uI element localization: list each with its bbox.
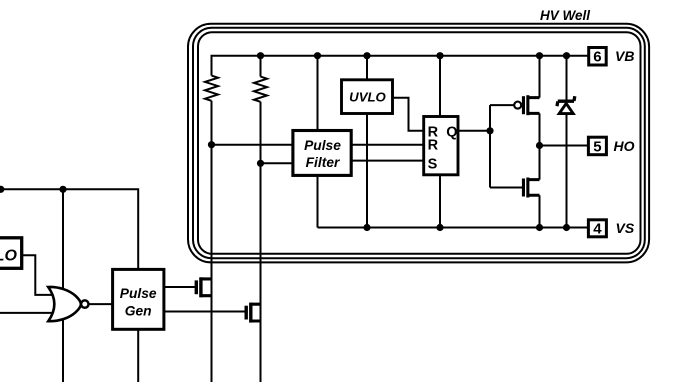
transistor M2 (level shift right) bbox=[245, 303, 261, 323]
wire pulse filter input rail 2 bbox=[261, 161, 424, 164]
wire HO tap bbox=[540, 145, 589, 147]
block Pulse Gen bbox=[113, 269, 164, 329]
zener diode D1 bbox=[557, 96, 575, 113]
svg-text:HO: HO bbox=[614, 138, 635, 154]
resistor R1 bbox=[205, 76, 218, 101]
wire UVLO to latch R bbox=[393, 98, 424, 131]
wire pulse gen bottom vertical bbox=[137, 329, 139, 382]
wire gate line vertical bbox=[489, 105, 491, 187]
HV Well boundary middle ring bbox=[193, 28, 645, 258]
wire VB top bus bbox=[212, 56, 589, 76]
block UVLO (low side, clipped) bbox=[0, 238, 22, 268]
pin 4 box bbox=[588, 220, 606, 238]
svg-text:LO: LO bbox=[0, 247, 18, 264]
junction dots on VB bus bbox=[257, 52, 264, 59]
wire latch vertical bbox=[439, 56, 441, 228]
latch U1 RRS bbox=[424, 117, 458, 175]
gate NOR bbox=[48, 287, 88, 321]
transistor NMOS low-side (well) bbox=[522, 178, 540, 198]
wire left branch vertical bbox=[62, 189, 64, 382]
svg-text:Pulse: Pulse bbox=[304, 138, 341, 153]
svg-text:6: 6 bbox=[593, 49, 601, 66]
svg-text:UVLO: UVLO bbox=[349, 90, 386, 105]
svg-text:4: 4 bbox=[593, 221, 602, 238]
junction dot gate node bbox=[486, 127, 493, 134]
svg-text:Gen: Gen bbox=[125, 304, 152, 319]
junction dots on VS bus bbox=[363, 224, 370, 231]
svg-text:S: S bbox=[428, 157, 438, 173]
svg-text:5: 5 bbox=[593, 138, 601, 155]
wire PMOS gate stub bbox=[490, 104, 514, 106]
wire Q output bbox=[458, 130, 490, 132]
wire NOR lower input bbox=[0, 312, 53, 314]
wire pulse filter vertical bbox=[317, 56, 319, 228]
HV Well boundary inner ring bbox=[198, 32, 641, 254]
junction dot rail1 bbox=[208, 141, 215, 148]
resistor R2 bbox=[254, 77, 267, 102]
svg-text:VB: VB bbox=[615, 48, 634, 64]
HV Well boundary outer ring bbox=[188, 24, 649, 263]
transistor PMOS high-side bbox=[514, 95, 539, 115]
transistor M1 (level shift left) bbox=[195, 277, 212, 297]
svg-text:Filter: Filter bbox=[306, 155, 340, 170]
wire LIN input bus bbox=[0, 189, 138, 269]
svg-text:R: R bbox=[428, 138, 439, 154]
junction dot rail2 bbox=[257, 160, 264, 167]
wire VS bottom bus bbox=[318, 227, 589, 229]
junction dot left edge bbox=[0, 186, 4, 193]
pin 6 box bbox=[589, 48, 607, 66]
pin 5 box bbox=[588, 137, 606, 155]
wire NMOS gate stub bbox=[490, 187, 522, 189]
svg-text:Q: Q bbox=[446, 124, 457, 140]
wire NOR output bbox=[89, 303, 113, 305]
wire UVLO to NOR input bbox=[22, 255, 53, 295]
wire second resistor branch down bbox=[260, 56, 262, 382]
junction dot left branch bbox=[59, 186, 66, 193]
wire pulse gen out 2 bbox=[164, 311, 245, 313]
svg-text:Pulse: Pulse bbox=[120, 286, 157, 301]
svg-text:VS: VS bbox=[616, 220, 635, 236]
junction dot HO node bbox=[536, 142, 543, 149]
svg-text:HV Well: HV Well bbox=[540, 8, 590, 23]
block UVLO (HV well) bbox=[342, 80, 393, 114]
block Pulse Filter bbox=[293, 131, 351, 176]
wire zener vertical bbox=[566, 56, 568, 228]
wire pulse filter input rail 1 bbox=[212, 144, 424, 146]
wire pulse gen out 1 bbox=[164, 286, 195, 288]
wire left resistor branch down bbox=[211, 101, 213, 382]
wire output half-bridge vertical bbox=[539, 56, 541, 228]
wire UVLO vertical bbox=[366, 56, 368, 228]
